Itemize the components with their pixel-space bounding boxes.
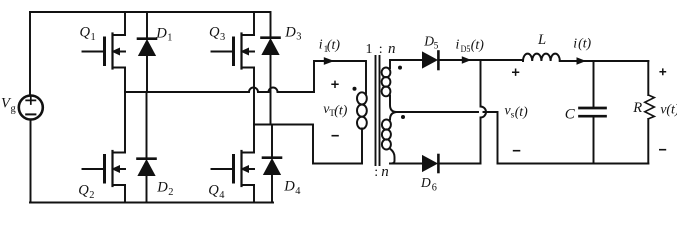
wire Q3 source to right midpoint xyxy=(253,68,255,125)
transformer primary winding xyxy=(365,61,367,94)
svg-text:3: 3 xyxy=(296,32,301,43)
transistor Q3 xyxy=(212,34,255,69)
lower secondary polarity dot xyxy=(401,115,405,119)
label + of vT xyxy=(331,81,338,88)
svg-text:D5: D5 xyxy=(461,45,471,55)
svg-text::: : xyxy=(374,165,378,180)
svg-text:Q: Q xyxy=(78,182,89,198)
wire bottom rail xyxy=(30,202,273,204)
svg-text:5: 5 xyxy=(434,41,439,51)
wire Q4 source to bottom rail xyxy=(253,185,255,203)
svg-text:i: i xyxy=(573,35,577,50)
svg-text:i: i xyxy=(456,36,460,51)
label - of vT xyxy=(332,135,339,137)
capacitor C xyxy=(580,61,606,164)
label - of v xyxy=(659,149,666,151)
wire right-leg midpoint to primary bottom xyxy=(254,125,362,164)
wire left vertical upper xyxy=(29,12,31,96)
svg-text:4: 4 xyxy=(219,190,225,201)
svg-text::: : xyxy=(379,42,383,57)
svg-text:(t): (t) xyxy=(578,35,591,51)
transistor Q2 xyxy=(83,151,126,186)
wire left vertical lower xyxy=(30,120,32,203)
wire Q3 drain from top rail xyxy=(253,12,255,35)
wire Q1 source to midpoint xyxy=(124,68,126,93)
diode D4 xyxy=(263,125,281,203)
svg-text:C: C xyxy=(565,106,576,122)
wire centre tap to output return xyxy=(397,111,479,113)
svg-text:4: 4 xyxy=(295,186,301,197)
wire Q2 source to bottom rail xyxy=(124,185,126,203)
wire Q1 drain from top rail xyxy=(124,12,126,35)
svg-text:3: 3 xyxy=(220,32,225,43)
svg-text:Q: Q xyxy=(208,182,219,198)
upper secondary polarity dot xyxy=(398,66,402,70)
svg-text:D: D xyxy=(155,25,167,41)
wire left midpoint up to primary top xyxy=(314,61,365,92)
svg-text:i: i xyxy=(319,37,323,52)
svg-text:n: n xyxy=(388,41,396,57)
label - of vs xyxy=(513,150,521,152)
svg-text:D: D xyxy=(283,179,295,195)
svg-text:2: 2 xyxy=(168,187,173,198)
svg-text:n: n xyxy=(381,164,389,180)
svg-text:(t): (t) xyxy=(471,37,484,53)
label + of v xyxy=(659,68,666,75)
svg-text:D: D xyxy=(156,179,168,195)
svg-text:Q: Q xyxy=(80,25,91,41)
transformer secondary lower winding xyxy=(390,112,397,120)
svg-text:(t): (t) xyxy=(666,102,677,118)
wire Q4 drain from right midpoint xyxy=(253,125,255,153)
label + of vs xyxy=(512,69,519,76)
svg-text:g: g xyxy=(11,104,16,115)
svg-text:R: R xyxy=(632,100,642,116)
voltage source Vg xyxy=(19,96,43,120)
svg-text:Q: Q xyxy=(209,25,220,41)
diode D3 xyxy=(262,12,280,125)
svg-text:1: 1 xyxy=(366,42,373,57)
wire D5 cathode to node X xyxy=(438,59,523,61)
wire D6 cathode to node X vertical xyxy=(438,163,480,165)
diode D6 xyxy=(423,155,439,172)
transformer core xyxy=(376,56,380,165)
svg-text:2: 2 xyxy=(89,190,94,201)
svg-text:(t): (t) xyxy=(327,37,340,53)
arrow i1(t) xyxy=(322,60,327,62)
svg-text:D: D xyxy=(284,24,296,40)
diode D2 xyxy=(138,92,156,203)
transistor Q1 xyxy=(83,34,126,69)
node X vertical with hop over centre tap xyxy=(481,60,487,164)
svg-text:(t): (t) xyxy=(515,104,528,120)
svg-text:1: 1 xyxy=(167,33,172,44)
wire L to output xyxy=(560,60,649,62)
diode D1 xyxy=(138,12,156,92)
wire secondary bottom to D6 xyxy=(390,163,423,165)
wire left-leg midpoint with hops xyxy=(125,88,314,93)
svg-text:(t): (t) xyxy=(334,103,347,119)
wire Q2 drain from midpoint xyxy=(124,92,126,153)
svg-text:6: 6 xyxy=(432,182,437,193)
resistor R xyxy=(645,61,655,164)
arrow i(t) xyxy=(577,57,587,64)
wire secondary top to D5 xyxy=(390,59,423,61)
transformer secondary upper winding xyxy=(389,60,391,68)
primary polarity dot xyxy=(353,87,357,91)
wire output bottom rail xyxy=(498,163,649,165)
transistor Q4 xyxy=(212,151,255,186)
svg-text:L: L xyxy=(537,32,546,48)
inductor L xyxy=(523,54,560,61)
wire top rail xyxy=(30,11,270,13)
arrow iD5(t) xyxy=(462,56,472,63)
svg-text:1: 1 xyxy=(91,32,96,43)
diode D5 xyxy=(423,52,439,70)
svg-text:D: D xyxy=(420,175,431,190)
